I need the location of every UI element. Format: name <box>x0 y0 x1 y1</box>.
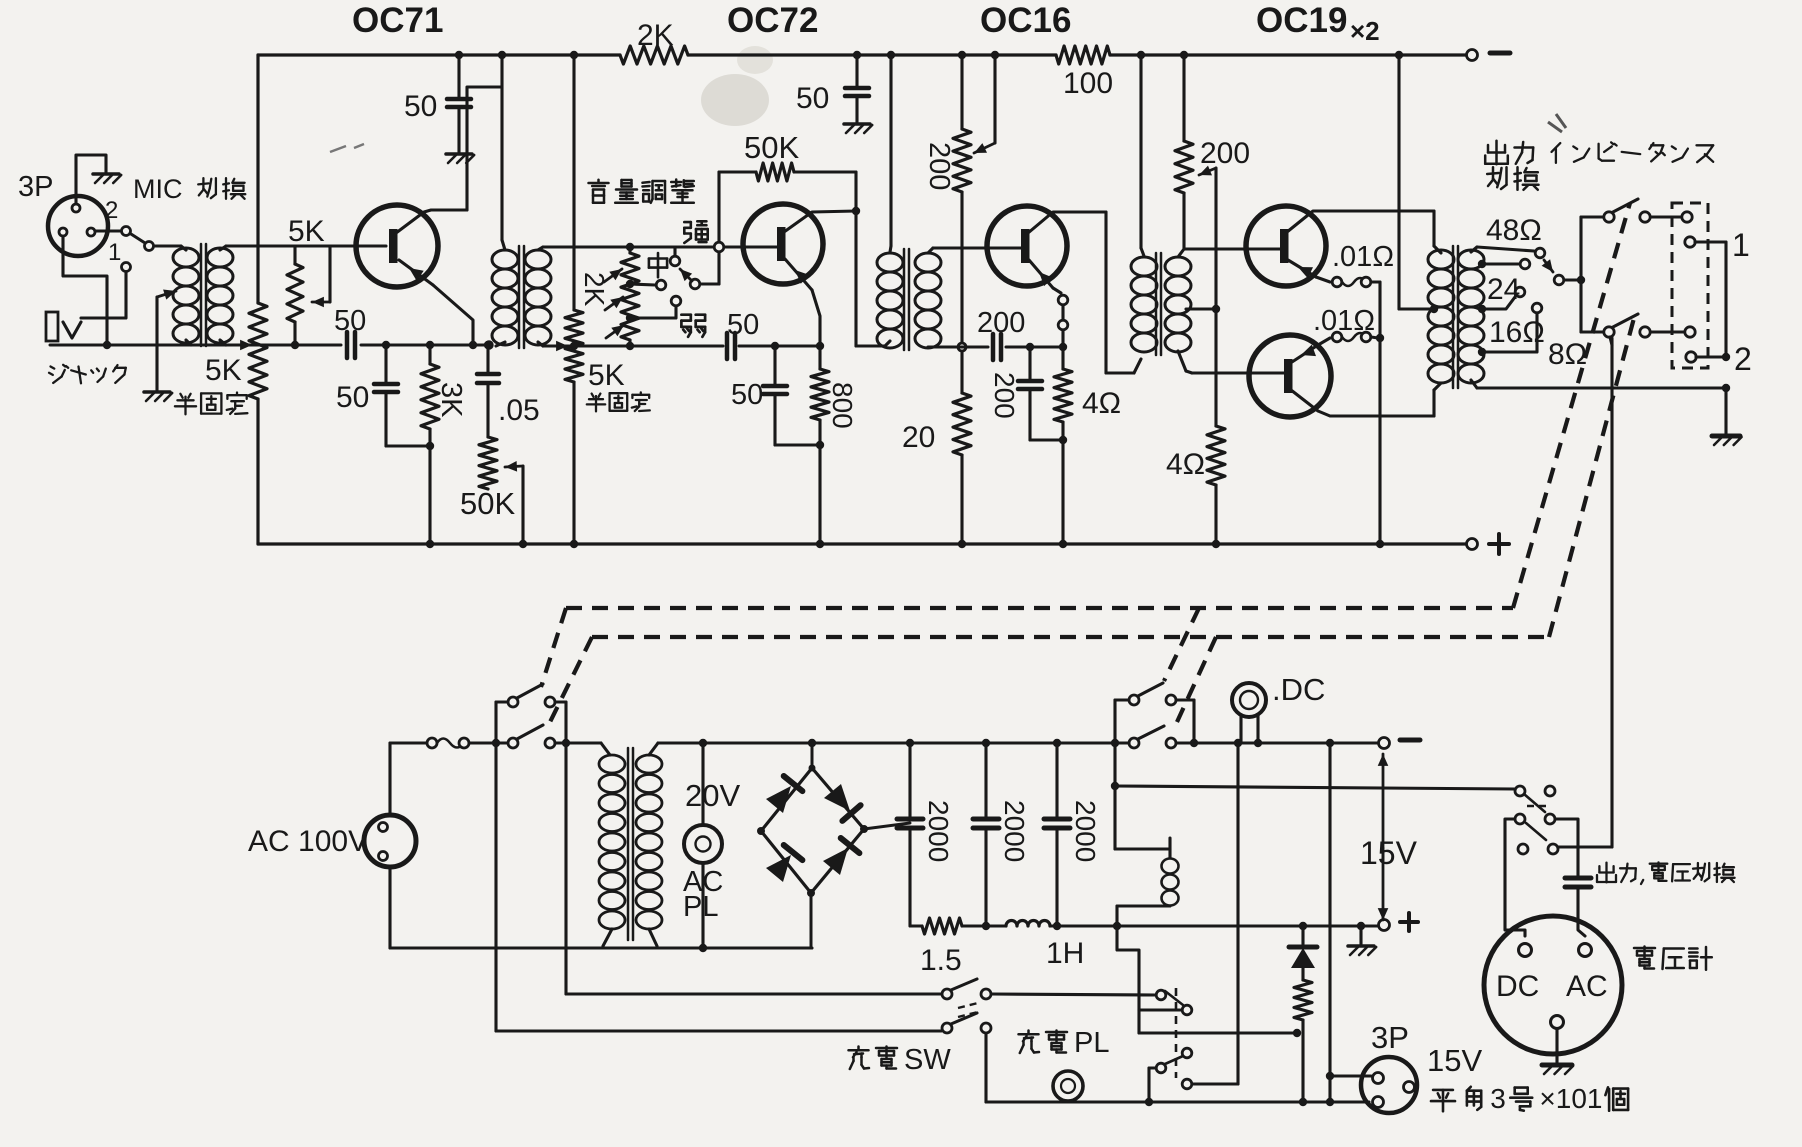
svg-text:200: 200 <box>1200 137 1250 170</box>
svg-text:200: 200 <box>923 142 955 190</box>
choke 1H <box>1006 921 1050 926</box>
wire AC plug top <box>388 743 391 815</box>
svg-text:24: 24 <box>1487 273 1520 306</box>
wire 3P pin1 down <box>63 236 107 345</box>
label 15V with arrows <box>1382 754 1385 860</box>
wire power switch bracket left <box>496 700 508 703</box>
wire battery switch bracket <box>1115 698 1129 701</box>
resistor 800 <box>818 346 821 369</box>
wire T3b to OC19 upper base <box>1184 247 1282 250</box>
terminal plus (bottom right) <box>1467 539 1478 550</box>
wire AC return line <box>390 946 812 949</box>
wire T1 secondary top to base <box>226 244 386 247</box>
svg-text:48Ω: 48Ω <box>1486 214 1542 247</box>
wire top supply rail (-) <box>258 53 620 56</box>
relay coil <box>1115 847 1170 850</box>
wire OC16 collector <box>1028 212 1106 233</box>
relay contacts cluster <box>1156 990 1166 1000</box>
switch MIC select <box>95 229 120 232</box>
svg-text:3K: 3K <box>435 382 467 418</box>
svg-text:50K: 50K <box>460 486 515 521</box>
wire T2 secondary top line <box>543 245 714 248</box>
svg-text:1: 1 <box>108 239 121 266</box>
transformer T2 interstage <box>502 240 505 250</box>
transformer T3 interstage <box>889 55 892 246</box>
ground (50 cap stage2) <box>844 122 870 126</box>
wire T1 tap to ground <box>155 297 158 390</box>
diode D4 <box>823 848 848 875</box>
diode D2 <box>824 784 850 811</box>
resistor 4 ohm (OC19) <box>1207 426 1225 485</box>
wire selector bracket to cap <box>1555 819 1578 876</box>
label jack (katakana) <box>51 367 55 369</box>
wire plus line <box>910 925 922 928</box>
label output voltage switch <box>1605 863 1607 883</box>
transformer T3b driver <box>1139 55 1142 248</box>
wire line to output selector <box>1115 786 1515 789</box>
switch arm <box>690 279 700 289</box>
dashed linkage A left diagonal <box>541 608 566 687</box>
label charge PL <box>1027 1031 1030 1034</box>
svg-text:1: 1 <box>1732 227 1750 263</box>
svg-text:1H: 1H <box>1046 937 1084 970</box>
svg-text:2: 2 <box>105 197 118 224</box>
wire OC19l collector <box>1291 390 1434 416</box>
lamp DC <box>1232 683 1266 717</box>
capacitor 2000 #3 <box>1053 739 1061 747</box>
terminal minus (top right) <box>1467 50 1478 61</box>
svg-text:MIC: MIC <box>133 174 183 204</box>
potentiometer 5K semi-fixed (stage2) with 2K <box>572 247 575 310</box>
svg-text:2000: 2000 <box>999 800 1030 862</box>
meter voltmeter <box>1484 916 1622 1054</box>
svg-text:15V: 15V <box>1360 835 1418 871</box>
ground (output common) <box>1712 434 1740 439</box>
arrows 2K taps <box>604 269 622 282</box>
wire 200 wiper to center tap and 4ohm <box>1199 168 1216 175</box>
wire 200 wiper from rail <box>993 55 996 143</box>
svg-text:OC19: OC19 <box>1256 1 1347 40</box>
svg-text:15V: 15V <box>1427 1043 1482 1078</box>
wire OC19u emitter <box>1288 260 1316 277</box>
wire minus column to 3P <box>1326 739 1334 747</box>
connector AC plug <box>364 815 416 867</box>
potentiometer 5K volume (stage1) <box>293 246 296 264</box>
resistor .01 ohm upper <box>1332 277 1342 287</box>
switch impedance selector <box>1535 248 1545 258</box>
capacitor output <box>1565 876 1591 881</box>
capacitor 200 bypass <box>1026 343 1034 351</box>
svg-text:2000: 2000 <box>1070 800 1101 862</box>
wire supply column x574 <box>572 55 575 247</box>
wire AC line to transformer <box>555 741 601 744</box>
fuse <box>390 741 427 744</box>
svg-text:PL: PL <box>1074 1027 1109 1059</box>
resistor 3K <box>426 341 434 349</box>
svg-text:100: 100 <box>1063 67 1113 100</box>
capacitor 50 (OC72 bypass top) <box>855 55 858 86</box>
switch volume contacts <box>630 284 655 285</box>
potentiometer 50K (stage1) <box>479 437 497 489</box>
wire OC72 emitter <box>785 259 812 290</box>
potentiometer 200 (OC16 bias) <box>960 55 963 129</box>
diode D1 <box>766 786 791 813</box>
svg-text:5K: 5K <box>588 359 625 392</box>
capacitor 200 coupling <box>991 334 996 360</box>
wire OC72 collector <box>784 211 856 232</box>
capacitor 2000 #2 <box>982 739 990 747</box>
svg-text:DC: DC <box>1496 970 1539 1003</box>
capacitor 50 coupling (stage2) <box>725 333 730 359</box>
svg-text:200: 200 <box>977 307 1025 339</box>
diode D3 <box>766 855 791 882</box>
ground (plus line) <box>1357 922 1365 930</box>
svg-text:50: 50 <box>731 379 763 411</box>
resistor 50K feedback <box>717 172 720 242</box>
wire 5K wiper <box>328 246 331 302</box>
wire OC16 base <box>987 246 1023 249</box>
svg-text:5K: 5K <box>288 215 325 248</box>
dashed linkage rail A <box>566 606 1513 610</box>
wire bottom line <box>984 1033 987 1102</box>
wire contact1 to jack tip <box>81 272 126 318</box>
ground (50 cap) <box>446 152 472 156</box>
resistor 100 (top rail) <box>1056 46 1110 64</box>
potentiometer 200 (OC19 bias) <box>1182 55 1185 141</box>
wire 3P pin to ground <box>76 155 106 204</box>
wire power switch right column <box>555 700 566 703</box>
resistor 2K (top rail) <box>620 46 688 64</box>
wire OC19u collector <box>1287 211 1434 232</box>
transformer T4 output <box>1428 250 1454 269</box>
wire selector to DC terminal <box>1505 819 1525 936</box>
svg-text:4Ω: 4Ω <box>1082 387 1121 420</box>
terminal plus (battery) <box>1379 920 1390 931</box>
resistor 2K tapped attenuator <box>626 243 634 251</box>
dashed linkage to battery switch A <box>1164 608 1199 681</box>
svg-text:.01Ω: .01Ω <box>1332 241 1394 273</box>
svg-text:200: 200 <box>989 372 1020 419</box>
svg-text:PL: PL <box>683 891 718 923</box>
svg-text:2K: 2K <box>637 19 674 52</box>
switch output voltage selector <box>1515 786 1525 796</box>
wire minus line <box>1115 741 1129 744</box>
svg-text:8Ω: 8Ω <box>1548 338 1587 371</box>
svg-text:2K: 2K <box>579 272 610 307</box>
wire supply to T4 center tap <box>1397 55 1400 309</box>
label output impedance switch <box>1495 141 1498 164</box>
arrowhead wiper 5K semi-fixed <box>240 340 252 351</box>
resistor 4 ohm (stage3) <box>1061 351 1064 369</box>
svg-text:50: 50 <box>334 305 366 337</box>
node bias crossing <box>958 343 966 351</box>
wire bias line stage1 <box>50 344 341 347</box>
wire 20V secondary line <box>658 741 1134 744</box>
wire charge line to relay <box>991 994 1156 995</box>
svg-text:1.5: 1.5 <box>920 944 962 977</box>
svg-text:800: 800 <box>827 382 858 429</box>
capacitor .05 <box>484 341 492 349</box>
ground (3P shield) <box>93 172 119 176</box>
connector 3P microphone <box>48 196 108 256</box>
wire T3b to OC19 lower base <box>1186 371 1192 373</box>
wire relay lower contact <box>1149 1066 1156 1069</box>
label kyou (strong) <box>684 221 691 224</box>
resistor .01 ohm lower <box>1332 332 1342 342</box>
connector phone jack <box>46 312 58 341</box>
wire long line switch to voltage selector <box>1610 337 1612 345</box>
wire supply to T2 primary <box>500 55 503 240</box>
wire T4 secondary top 48ohm <box>1471 247 1477 252</box>
svg-text:50: 50 <box>727 309 759 341</box>
wire bias line stage2 <box>543 345 723 348</box>
svg-text:.DC: .DC <box>1272 672 1325 707</box>
resistor charge limit <box>1294 980 1312 1020</box>
taps on T4 secondary <box>1478 260 1486 268</box>
svg-text:4Ω: 4Ω <box>1166 448 1205 481</box>
wire plus to relay contact <box>1117 926 1139 1033</box>
capacitor 2000 #1 <box>906 739 914 747</box>
wire AC plug bottom <box>388 867 391 948</box>
resistor 20 <box>960 351 963 393</box>
label battery type <box>1433 1089 1453 1092</box>
wire OC19l emitter <box>1292 345 1318 362</box>
capacitor 50 bypass (stage2) <box>771 342 779 350</box>
capacitor 50 coupling (stage1) <box>345 332 350 358</box>
svg-text:OC71: OC71 <box>352 1 443 40</box>
label jaku (weak) <box>681 313 690 316</box>
switch SW1 output <box>1604 212 1614 222</box>
svg-text:16Ω: 16Ω <box>1489 316 1545 349</box>
wire jumper 1-2 <box>1695 240 1726 243</box>
svg-text:SW: SW <box>904 1044 951 1076</box>
wire T4 secondary bottom 8ohm common <box>1471 380 1477 388</box>
transistor OC16 <box>987 206 1067 286</box>
label chuu (middle) <box>649 257 667 260</box>
dashed linkage to battery switch B <box>1177 637 1216 722</box>
transformer T1 input <box>173 248 199 267</box>
transistor OC19 lower <box>1249 335 1331 417</box>
dashed linkage B right diagonal <box>1549 318 1634 637</box>
transistor OC19 upper <box>1246 206 1326 286</box>
label charge SW <box>857 1047 860 1050</box>
svg-text:50K: 50K <box>744 130 799 165</box>
wire bottom rail (+) <box>258 542 1466 545</box>
resistor 1.5 <box>922 918 962 934</box>
terminal minus (battery) <box>1379 738 1390 749</box>
svg-text:AC 100V: AC 100V <box>248 825 368 858</box>
svg-text:OC72: OC72 <box>727 1 818 40</box>
wire T3 secondary to OC16 base <box>933 246 987 249</box>
ground (voltmeter) <box>1555 1029 1558 1063</box>
wire OC71 collector <box>396 210 467 233</box>
label hangotei 1 <box>180 394 182 398</box>
potentiometer 5K semi-fixed (stage 1) <box>249 303 267 399</box>
switch charge SW <box>942 989 952 999</box>
label volume adjust <box>597 180 600 183</box>
switch power DPST <box>508 697 518 707</box>
svg-text:×2: ×2 <box>1350 16 1380 46</box>
transistor OC71 <box>356 205 438 287</box>
svg-text:3P: 3P <box>18 171 53 203</box>
svg-text:.05: .05 <box>498 394 540 427</box>
svg-text:50: 50 <box>404 90 437 123</box>
wire OC71 emitter <box>399 260 433 285</box>
connector 3P battery <box>1361 1057 1417 1113</box>
switch SW2 output <box>1604 327 1614 337</box>
capacitor 50 (OC71 collector bypass) <box>457 55 460 97</box>
svg-text:×101: ×101 <box>1539 1083 1602 1114</box>
wire left rail <box>256 55 259 303</box>
svg-text:.01Ω: .01Ω <box>1313 305 1375 337</box>
svg-text:2000: 2000 <box>923 800 954 862</box>
svg-text:AC: AC <box>1566 970 1608 1003</box>
transistor OC72 <box>743 204 823 284</box>
svg-text:50: 50 <box>796 82 829 115</box>
ground (T1 tap) <box>144 390 170 394</box>
rectifier bridge <box>761 768 864 893</box>
wire OC16 emitter with link <box>1029 260 1053 288</box>
capacitor 50 bypass (stage1) <box>382 341 390 349</box>
svg-text:3: 3 <box>1490 1083 1506 1114</box>
wire DC lamp column down to relay <box>1234 739 1242 747</box>
dashed linkage B left diagonal <box>549 637 592 724</box>
svg-text:3P: 3P <box>1371 1020 1409 1055</box>
dashed linkage rail B <box>592 635 1549 639</box>
connector block dashed <box>1672 203 1708 368</box>
diode charge <box>1299 922 1307 930</box>
wire OC72 base <box>746 245 779 248</box>
label voltmeter <box>1634 947 1655 950</box>
dashed linkage A right diagonal <box>1513 203 1630 608</box>
lamp charge PL <box>1053 1071 1083 1101</box>
wire bias line stage3 <box>934 346 988 349</box>
svg-text:20V: 20V <box>685 778 740 813</box>
svg-text:20: 20 <box>902 421 935 454</box>
switch battery changeover DPDT <box>1129 695 1139 705</box>
svg-text:2: 2 <box>1734 341 1752 377</box>
svg-text:50: 50 <box>336 381 369 414</box>
wire battery switch right to minus line <box>1176 698 1194 701</box>
lamp AC PL 20V <box>699 739 707 747</box>
svg-text:5K: 5K <box>205 354 242 387</box>
transformer T5 power <box>599 755 625 773</box>
svg-text:OC16: OC16 <box>980 1 1071 40</box>
